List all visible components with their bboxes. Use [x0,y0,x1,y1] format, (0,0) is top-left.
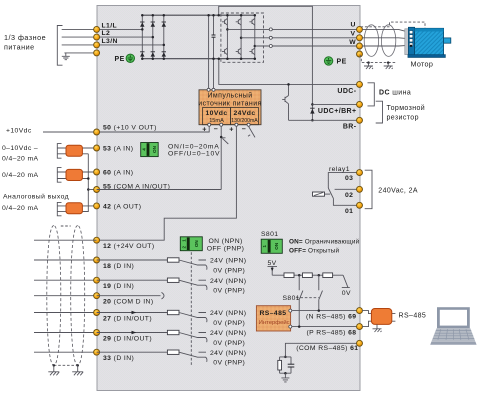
drive enclosure (gray box) [97,6,360,391]
wire V to motor [362,37,408,40]
wire BR- [289,119,360,121]
node R2-R3 [318,274,321,277]
svg-text:+10Vdc: +10Vdc [6,128,32,135]
svg-text:02: 02 [345,192,353,199]
svg-text:+: + [229,125,234,134]
node shield2 [76,364,79,367]
pin W [269,45,272,48]
terminal 29 [94,330,100,336]
svg-text:01: 01 [345,208,353,215]
wire L1 [62,28,143,30]
PE symbol left [115,54,135,63]
svg-text:V: V [351,30,356,37]
svg-text:60 (A IN): 60 (A IN) [103,169,133,176]
switch 27 [179,313,207,323]
diode D4 [140,52,144,57]
bracket brake resistor [376,101,383,123]
svg-text:29 (D IN/OUT): 29 (D IN/OUT) [103,335,152,342]
wire 29 internal [97,332,168,334]
svg-text:U: U [351,22,356,29]
svg-text:24V (NPN): 24V (NPN) [210,350,246,357]
terminal L1/L [94,26,100,32]
node switch P on 68 [298,325,301,328]
switch 29 [179,333,207,343]
svg-text:(N RS–485) 69: (N RS–485) 69 [306,314,357,321]
resistor RC [278,357,282,373]
node switch N on 69 [318,309,321,312]
diode D1 [140,22,144,27]
analog common vertical [82,154,88,212]
wire 33 external [34,351,97,353]
IGBT leg U [222,14,229,60]
wire +10Vdc external [43,131,97,133]
svg-text:18 (D IN): 18 (D IN) [103,263,134,270]
svg-text:24V (NPN): 24V (NPN) [210,330,246,337]
analog source 53 [66,145,82,156]
wire 27 internal [97,312,168,314]
svg-text:(COM RS–485) 61: (COM RS–485) 61 [296,345,358,352]
switching power supply box [198,90,261,125]
terminal 03 [357,170,363,176]
diode D3 [162,22,166,27]
svg-text:Мотор: Мотор [411,60,434,69]
IGBT leg W [249,14,256,60]
svg-text:19 (D IN): 19 (D IN) [103,283,134,290]
RFI filter 18 [167,258,179,262]
arrow 27 [132,311,137,315]
node shield gnd2 [387,61,390,64]
switch 33 [179,352,207,362]
mains supply bracket [57,26,62,66]
terminal 55 [94,187,100,193]
pin PSU 24V- [247,123,250,126]
pin PSU 10V+ [208,123,211,126]
svg-text:240Vac, 2A: 240Vac, 2A [378,187,418,194]
node RC top [284,356,287,359]
wire 55 common to PSU [97,189,222,191]
IGBT leg V [236,14,243,60]
wire DC+ loop to brake [219,6,313,104]
node 10V- tap [220,136,223,139]
svg-text:0/4–20 mA: 0/4–20 mA [2,156,39,163]
node L1-leg1 [141,28,144,31]
wire V output [241,37,359,39]
wire 61 [285,343,359,357]
svg-text:ON: ON [152,145,157,153]
wire 12 external [34,239,97,241]
svg-text:–: – [242,124,246,133]
termination rail [272,274,343,276]
wire W to motor [362,44,408,47]
svg-text:24Vdc: 24Vdc [233,110,255,117]
switch lever 24V- [248,126,255,137]
wire relay 01 [333,198,359,205]
DIP switch NPN/PNP [180,237,202,251]
diode D2 [151,22,155,27]
PE symbol right [324,57,346,66]
terminal L3/N [94,42,100,48]
svg-text:4: 4 [141,148,146,151]
wire L3 [62,44,164,46]
resistor R2 [303,273,313,278]
wire PE input [64,52,96,54]
svg-text:42 (A OUT): 42 (A OUT) [103,203,141,210]
wire 42 bottom [58,211,89,213]
diode D5 [151,52,155,57]
terminal 42 [94,203,100,209]
svg-text:W: W [349,39,356,46]
svg-text:питание: питание [4,43,35,52]
terminal BR- [357,117,363,123]
terminal 53 [94,145,100,151]
control cable shield ellipse 2 [71,226,85,366]
shield bridge bottom [54,364,78,366]
wire 55 to terminal [88,189,96,191]
svg-text:24V (NPN): 24V (NPN) [210,278,246,285]
svg-text:relay1: relay1 [329,166,350,173]
svg-text:0/4–20 mA: 0/4–20 mA [2,172,39,179]
terminal 50 [94,129,100,135]
svg-text:33 (D IN): 33 (D IN) [103,355,134,362]
resistor R3 [323,273,333,278]
svg-text:27 (D IN/OUT): 27 (D IN/OUT) [103,315,152,322]
svg-text:12 (+24V OUT): 12 (+24V OUT) [103,243,155,250]
svg-text:20 (COM D IN): 20 (COM D IN) [103,299,154,306]
ground control shield 2 [72,365,83,375]
svg-text:1/3 фазное: 1/3 фазное [4,33,46,42]
svg-text:OFF= Открытый: OFF= Открытый [289,246,339,254]
svg-text:0V (PNP): 0V (PNP) [213,288,245,295]
pin U [269,28,272,31]
laptop [430,307,476,345]
pin V [269,36,272,39]
analog load 42 [66,203,82,214]
wire 68 to ferrite [362,321,395,326]
wire 10V+ to terminal 50 [97,126,210,132]
svg-text:L1/L: L1/L [102,22,118,29]
svg-text:0V (PNP): 0V (PNP) [213,320,245,327]
wire UDC+/BR+ [312,103,359,105]
switch 18 [179,260,207,270]
wire UDC- from DC- bus [219,59,360,85]
wire U to motor [362,29,408,31]
wire PSU feed from DC+ [208,15,210,90]
brake diode [310,103,314,121]
terminal 02 [357,186,363,192]
terminal V [357,35,363,41]
svg-text:BR-: BR- [343,123,357,130]
wire relay 03 [328,173,359,188]
brake chopper IGBT [282,83,290,120]
svg-text:Тормозной: Тормозной [387,104,426,112]
motor cable shield bottom dashes [360,55,397,63]
motor [405,27,451,57]
svg-text:03: 03 [345,175,353,182]
wire 19 internal [97,279,168,281]
ground RC earth [281,373,289,382]
terminal PE left [94,50,100,56]
wire 27 external [34,312,97,314]
svg-text:L2: L2 [102,30,111,37]
shield bridge top [61,225,71,227]
cable ellipse 2 [381,25,395,57]
rectifier DC- bus [142,58,255,60]
wire 60 top [58,171,97,173]
RFI filter 27 [167,310,179,314]
analog out 42 bracket [57,202,61,215]
wire 53 top [58,147,97,149]
control cable shield ellipse 1 [47,226,61,366]
terminal 01 [357,202,363,208]
svg-text:UDC+/BR+: UDC+/BR+ [318,108,357,115]
analog source 60 bracket [57,168,61,183]
terminal PE right [357,51,363,57]
svg-text:53 (A IN): 53 (A IN) [103,145,133,152]
node L2-leg2 [152,36,155,39]
pin PSU 10V- [220,123,223,126]
wire 18 internal [97,259,168,261]
node R1-R2 [298,274,301,277]
terminal W [357,43,363,49]
svg-text:5V: 5V [268,260,277,267]
node shield gnd1 [367,61,370,64]
node shield1 [53,364,56,367]
RC network top bar [280,357,291,373]
switch lever 10V- [222,138,228,144]
RFI filter 19 [167,278,179,282]
svg-text:резистор: резистор [387,115,419,122]
S801 switch P [319,275,323,310]
pin PSU 24V+ [235,123,238,126]
svg-text:0V (PNP): 0V (PNP) [213,340,245,347]
wire 69 to ferrite [362,311,395,314]
svg-text:RS–485: RS–485 [260,310,287,317]
RFI filter 33 [167,350,179,354]
S801 switch N [299,275,303,326]
terminal U [357,26,363,32]
cable ellipse 1 [364,25,378,57]
S801 dashed linkage [296,297,319,299]
wire U output [227,28,359,30]
terminal UDC+/BR+ [357,101,363,107]
rectifier leg 2 [152,15,154,59]
svg-text:0V (PNP): 0V (PNP) [213,360,245,367]
svg-text:UDC-: UDC- [337,88,356,95]
svg-text:RS–485: RS–485 [399,313,427,320]
svg-text:DC шина: DC шина [379,89,411,96]
switch to 0V [342,275,350,287]
capacitor RC [288,357,295,373]
svg-text:ON (NPN): ON (NPN) [209,238,243,245]
svg-text:PE: PE [337,58,347,65]
svg-text:S801: S801 [283,295,300,302]
svg-text:10Vdc: 10Vdc [205,110,227,117]
svg-text:источник питания: источник питания [198,100,261,107]
motor cable shield top dashes [361,22,426,28]
DIP switch S801 [261,239,282,253]
terminal 20 [94,293,100,299]
svg-text:0–10Vdc –: 0–10Vdc – [2,145,38,152]
analog source 53 bracket [57,144,61,159]
rectifier DC+ bus [142,14,255,16]
svg-text:0V: 0V [342,290,351,297]
ground cable shield 1 [364,63,373,69]
svg-text:0V (PNP): 0V (PNP) [213,268,245,275]
wire 20 internal [97,295,161,297]
svg-text:(P RS–485) 68: (P RS–485) 68 [306,329,356,336]
svg-text:Интерфейс: Интерфейс [259,319,290,326]
capacitor DC link [212,14,216,90]
svg-text:PE: PE [115,56,125,63]
wire W output [255,45,360,47]
pin PSU in- [212,88,215,91]
ground cable shield 2 [384,63,393,69]
terminal 69 [357,308,363,314]
node L3-leg3 [163,44,166,47]
analog source 60 [66,169,82,180]
svg-text:OFF/U=0–10V: OFF/U=0–10V [168,150,220,157]
switch 19 [179,280,207,290]
bracket DC bus [368,83,375,106]
pin RS485 N [289,309,292,312]
rectifier leg 3 [163,15,165,59]
ground control shield 1 [48,365,59,375]
wire 10V- common down [220,126,222,189]
terminal UDC- [357,81,363,87]
wire L2 [62,36,153,38]
ground supply earth [62,53,70,60]
svg-text:ON: ON [274,242,279,250]
terminal 18 [94,257,100,263]
terminal 33 [94,349,100,355]
wire 29 external [34,332,97,334]
RFI filter 29 [167,330,179,334]
wire 69 [292,310,359,312]
wire 18 external [34,259,97,261]
wire 24V+ to terminal 12 [97,126,237,240]
terminal 27 [94,310,100,316]
rectifier leg 1 [141,15,143,59]
terminal L2 [94,34,100,40]
svg-text:OFF (PNP): OFF (PNP) [207,246,245,253]
terminal 12 [94,237,100,243]
terminal 61 [357,340,363,346]
svg-text:24V (NPN): 24V (NPN) [210,310,246,317]
svg-text:ON/I=0–20mA: ON/I=0–20mA [168,143,220,150]
ferrite filter RS-485 [371,309,391,325]
svg-text:Аналоговый выход: Аналоговый выход [3,193,69,201]
wire 33 internal [97,351,168,353]
svg-text:L3/N: L3/N [102,38,118,45]
wire 53 bottom [58,153,89,155]
pin RS485 P [289,325,292,328]
wire 60 bottom [58,178,89,180]
inverter dashed module [221,13,264,62]
relay lever [328,188,333,198]
arrow 29 [132,331,137,335]
pin PSU in+ [207,88,210,91]
svg-text:ON: ON [194,240,199,248]
RS-485 interface box [256,306,290,331]
wire 20 external [34,295,97,297]
svg-text:Импульсный: Импульсный [207,91,252,99]
node bus top leg1 [141,14,144,17]
terminal 19 [94,277,100,283]
brace 20 [162,292,165,299]
DIP switch A54 U/I [141,143,159,157]
svg-text:24V (NPN): 24V (NPN) [210,258,246,265]
node RC bottom [284,372,287,375]
wire 19 external [34,279,97,281]
svg-text:S801: S801 [261,231,278,238]
terminal 60 [94,169,100,175]
svg-text:–: – [214,124,218,133]
bracket relay [365,170,372,209]
wire 68 [292,326,360,328]
dashed linkage NPN/PNP [190,252,192,366]
svg-text:ON= Ограничивающий: ON= Ограничивающий [289,237,360,245]
relay coil [313,192,331,196]
wire 42 top [58,205,97,207]
wire relay 02 [335,188,360,190]
terminal 68 [357,324,363,330]
diode D6 [162,52,166,57]
resistor R1 [284,273,294,278]
svg-text:0/4–20 mA: 0/4–20 mA [2,205,39,212]
svg-text:50 (+10 V OUT): 50 (+10 V OUT) [103,125,157,132]
ground ferrite [373,324,382,332]
